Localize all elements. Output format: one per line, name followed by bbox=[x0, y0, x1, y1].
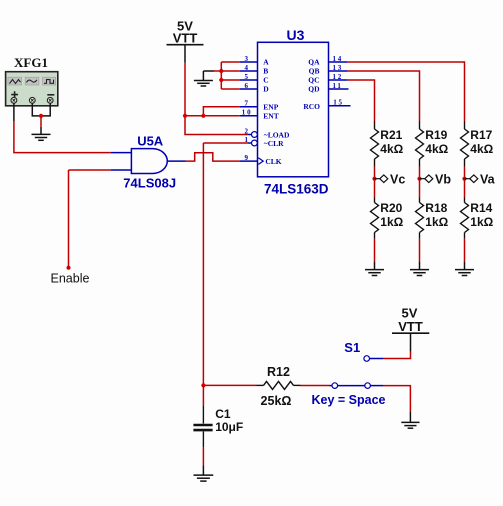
svg-text:D: D bbox=[263, 85, 269, 94]
resistor R21 4k bbox=[371, 121, 404, 167]
svg-text:1kΩ: 1kΩ bbox=[380, 215, 403, 229]
svg-text:14: 14 bbox=[333, 55, 344, 63]
svg-text:7: 7 bbox=[245, 100, 249, 108]
switch S1 bbox=[312, 340, 386, 407]
svg-text:Va: Va bbox=[480, 172, 496, 186]
wire XFG1 minus lead bbox=[49, 103, 51, 116]
svg-text:R19: R19 bbox=[425, 128, 447, 142]
wire S1 throw to ground bbox=[370, 385, 383, 387]
svg-text:QD: QD bbox=[308, 85, 320, 94]
svg-text:C: C bbox=[263, 76, 268, 85]
svg-text:QC: QC bbox=[308, 76, 319, 85]
resistor R19 4k bbox=[416, 121, 449, 167]
wire XFG1 common lead bbox=[31, 103, 33, 116]
svg-text:R14: R14 bbox=[470, 201, 492, 215]
junction R12 C1 CLR bbox=[201, 383, 205, 387]
wire VTT to ENT junction bbox=[184, 63, 186, 116]
pin bubble ~CLR pin1 bbox=[252, 140, 258, 146]
svg-text:A: A bbox=[263, 58, 269, 67]
svg-text:R12: R12 bbox=[267, 365, 290, 379]
U3 pin names bbox=[263, 58, 320, 167]
U3 left pin stubs bbox=[240, 62, 258, 116]
junction ENP-ENT bbox=[201, 114, 205, 118]
wire ~CLR vertical down to R12 junction bbox=[202, 143, 204, 385]
ground GND2 near chip bbox=[194, 71, 214, 86]
svg-text:VTT: VTT bbox=[398, 319, 423, 334]
svg-text:1kΩ: 1kΩ bbox=[470, 215, 493, 229]
svg-text:2: 2 bbox=[245, 127, 249, 135]
wire R20 to ground bbox=[374, 239, 376, 262]
wire R14 to ground bbox=[464, 239, 466, 262]
svg-text:15: 15 bbox=[333, 99, 344, 107]
wire R18 to ground bbox=[419, 239, 421, 262]
svg-text:25kΩ: 25kΩ bbox=[261, 394, 292, 408]
ground GND1 bbox=[32, 127, 51, 141]
junction XFG1 ground bbox=[39, 114, 43, 118]
wire R21 to node Vc bbox=[374, 167, 376, 198]
svg-text:R20: R20 bbox=[380, 201, 402, 215]
wire XFG1 plus to U5A input 1 bbox=[14, 121, 111, 153]
svg-text:4: 4 bbox=[245, 64, 249, 72]
svg-text:C1: C1 bbox=[215, 407, 231, 421]
wire QB pin13 to R19 bbox=[347, 71, 420, 121]
wire junction to C1 bbox=[202, 385, 204, 406]
svg-text:9: 9 bbox=[245, 154, 249, 162]
IC U3 74LS163D bbox=[258, 27, 329, 196]
svg-text:3: 3 bbox=[245, 55, 249, 63]
junction bus pin4 bbox=[219, 69, 223, 73]
svg-text:5: 5 bbox=[245, 73, 249, 81]
svg-text:ENT: ENT bbox=[263, 111, 278, 120]
pin bubble ~LOAD pin2 bbox=[252, 132, 258, 138]
junction ENT-VTT bbox=[183, 114, 187, 118]
wire R19 to node Vb bbox=[419, 167, 421, 198]
U3 pin numbers bbox=[242, 55, 344, 162]
wire to ground GND1 bbox=[40, 116, 42, 127]
svg-text:RCO: RCO bbox=[303, 102, 320, 111]
resistor R20 1k bbox=[371, 198, 404, 239]
wire ABCD bus bbox=[221, 62, 240, 89]
svg-text:XFG1: XFG1 bbox=[14, 55, 48, 70]
wire ~LOAD run bbox=[185, 116, 248, 135]
op-amp U5A AND gate bbox=[111, 133, 186, 190]
svg-text:Vb: Vb bbox=[435, 172, 451, 186]
svg-text:VTT: VTT bbox=[173, 31, 198, 46]
svg-text:R18: R18 bbox=[425, 201, 447, 215]
wire C1 to ground bbox=[202, 447, 204, 465]
junction bus pin5 bbox=[219, 78, 223, 82]
svg-text:QA: QA bbox=[308, 58, 320, 67]
resistor R17 4k bbox=[461, 121, 494, 167]
node Va bbox=[462, 172, 495, 186]
svg-text:1: 1 bbox=[245, 136, 249, 144]
svg-text:U3: U3 bbox=[287, 27, 305, 43]
wire VTT to S1 top throw bbox=[383, 352, 411, 359]
svg-text:CLK: CLK bbox=[265, 157, 281, 166]
ground GND6 bbox=[401, 422, 419, 428]
capacitor C1 bbox=[193, 406, 243, 447]
svg-text:10: 10 bbox=[242, 109, 253, 117]
wire QC pin12 to R21 bbox=[347, 80, 375, 121]
svg-text:4kΩ: 4kΩ bbox=[425, 142, 448, 156]
svg-text:4kΩ: 4kΩ bbox=[380, 142, 403, 156]
node Enable bbox=[68, 170, 70, 268]
svg-text:~CLR: ~CLR bbox=[264, 139, 284, 148]
wire Enable to U5A input 2 bbox=[69, 169, 111, 171]
svg-text:R21: R21 bbox=[380, 128, 402, 142]
wire ~CLR horizontal bbox=[203, 142, 248, 144]
svg-text:74LS163D: 74LS163D bbox=[264, 181, 329, 196]
svg-text:U5A: U5A bbox=[137, 133, 164, 148]
wire ENT run bbox=[185, 115, 240, 117]
wire ENP run bbox=[203, 107, 240, 116]
wire R12 to S1 pole bbox=[301, 385, 330, 387]
ground GND7 bbox=[194, 475, 214, 481]
svg-text:R17: R17 bbox=[470, 128, 492, 142]
svg-text:6: 6 bbox=[245, 82, 249, 90]
svg-text:Enable: Enable bbox=[51, 272, 90, 286]
ground GND3 bbox=[365, 261, 384, 275]
ground GND5 bbox=[455, 261, 474, 275]
pin triangle CLK bbox=[258, 158, 263, 165]
svg-text:11: 11 bbox=[333, 82, 343, 90]
wire U5A output to CLK with jog bbox=[186, 153, 241, 161]
ground GND4 bbox=[410, 261, 429, 275]
wire XFG1 plus lead bbox=[13, 103, 15, 121]
svg-text:4kΩ: 4kΩ bbox=[470, 142, 493, 156]
power VTT right 5V bbox=[392, 306, 429, 352]
wire XFG1 common to minus bbox=[32, 115, 51, 117]
svg-text:74LS08J: 74LS08J bbox=[123, 175, 176, 190]
resistor R12 25k bbox=[257, 365, 301, 408]
svg-text:ENP: ENP bbox=[263, 102, 278, 111]
wire junction to R12 bbox=[203, 384, 256, 386]
svg-text:S1: S1 bbox=[344, 340, 360, 355]
node Vb bbox=[417, 172, 451, 186]
svg-text:12: 12 bbox=[333, 73, 344, 81]
svg-text:Key = Space: Key = Space bbox=[312, 393, 386, 407]
power VTT top 5V bbox=[167, 19, 204, 63]
wire R17 to node Va bbox=[464, 167, 466, 198]
svg-text:QB: QB bbox=[309, 67, 320, 76]
svg-text:B: B bbox=[263, 67, 268, 76]
resistor R18 1k bbox=[416, 198, 449, 239]
wire GND2 to ABCD bus bbox=[213, 70, 221, 72]
svg-text:10μF: 10μF bbox=[215, 420, 243, 434]
wire QA pin14 to R17 bbox=[347, 62, 465, 121]
svg-text:1kΩ: 1kΩ bbox=[425, 215, 448, 229]
svg-text:Vc: Vc bbox=[390, 172, 405, 186]
U3 right pin stubs bbox=[329, 62, 351, 106]
resistor R14 1k bbox=[461, 198, 494, 239]
wire CLK pin stub bbox=[240, 160, 258, 162]
node Vc bbox=[372, 172, 405, 186]
svg-text:13: 13 bbox=[333, 64, 344, 72]
function generator XFG1 bbox=[6, 55, 58, 106]
